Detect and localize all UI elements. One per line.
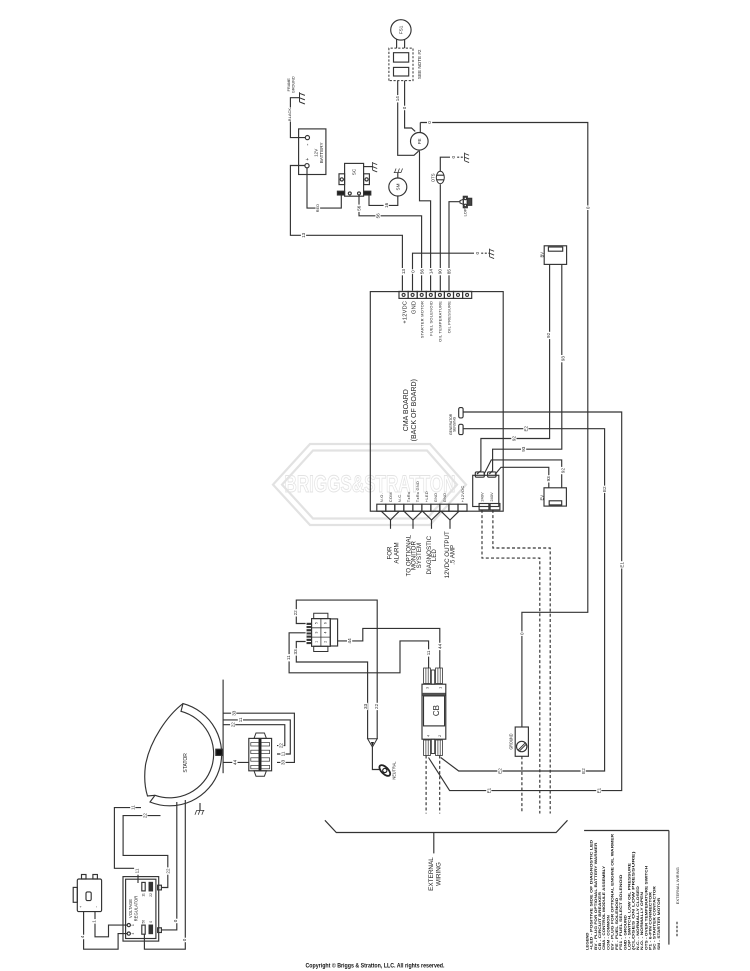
wire black battery to frame ground xyxy=(290,98,305,138)
terminal +12VDC xyxy=(399,291,408,298)
svg-text:22: 22 xyxy=(143,813,148,819)
svg-text:EV: EV xyxy=(539,495,544,501)
svg-text:11: 11 xyxy=(134,868,139,873)
cbp xyxy=(439,668,441,684)
svg-text:+: + xyxy=(305,158,311,161)
svg-text:4: 4 xyxy=(324,631,328,633)
svg-text:GROUND: GROUND xyxy=(292,76,296,93)
svg-text:FUEL SOLENOID: FUEL SOLENOID xyxy=(428,301,433,336)
terminal N.C. xyxy=(395,504,404,511)
label 0b xyxy=(427,120,432,125)
svg-text:22: 22 xyxy=(293,610,298,616)
label 85 xyxy=(447,268,452,275)
svg-text:0: 0 xyxy=(410,270,415,273)
bracket stub xyxy=(433,833,435,854)
svg-text:BLACK: BLACK xyxy=(287,108,292,121)
svg-text:FOR: FOR xyxy=(386,546,393,560)
wire 44 bus to conn xyxy=(223,761,249,763)
label 33b xyxy=(363,703,368,710)
svg-text:56: 56 xyxy=(142,920,146,924)
Briggs & Stratton watermark logo xyxy=(273,444,466,525)
svg-text:0: 0 xyxy=(149,921,153,923)
terminal nc xyxy=(449,504,458,511)
wire OTS gnd dash xyxy=(457,156,464,158)
svg-text:13: 13 xyxy=(301,232,306,238)
terminal OIL PRESSURE xyxy=(444,291,453,298)
wire 93 BV to 240V xyxy=(489,264,562,474)
wire 14 FS1-FE xyxy=(398,81,419,156)
svg-text:+: + xyxy=(79,906,83,908)
ground at SM xyxy=(394,169,403,173)
svg-text:FS1: FS1 xyxy=(399,25,404,34)
fan stub xyxy=(412,520,414,529)
svg-text:4: 4 xyxy=(427,735,431,737)
label 92b xyxy=(511,435,516,442)
fan stub xyxy=(390,520,392,529)
svg-text:0: 0 xyxy=(402,106,407,109)
terminal nc xyxy=(454,291,463,298)
label 4w xyxy=(80,935,85,940)
label 22e xyxy=(142,812,147,819)
label 13b xyxy=(401,268,406,275)
svg-text:+12VDC: +12VDC xyxy=(403,301,409,324)
wire FS1 lead left xyxy=(396,40,398,49)
terminal +12VDC xyxy=(458,504,467,511)
label 1w xyxy=(91,919,96,924)
svg-text:6: 6 xyxy=(324,622,328,624)
svg-text:92: 92 xyxy=(546,332,551,338)
svg-text:14: 14 xyxy=(395,96,400,102)
svg-text:CB: CB xyxy=(432,705,441,716)
svg-text:+LED: +LED xyxy=(424,491,429,502)
label 92c xyxy=(560,467,565,474)
svg-text:4: 4 xyxy=(80,935,85,938)
wire 11 stator to VR xyxy=(114,808,141,883)
terminal GND xyxy=(408,291,417,298)
svg-text:E2: E2 xyxy=(602,486,607,492)
fan diag xyxy=(381,511,390,520)
wire 85 LOP to board xyxy=(449,202,460,291)
wire SM top stub xyxy=(397,173,399,178)
wire 16 SC to SM xyxy=(369,195,398,205)
svg-text:SYSTEM: SYSTEM xyxy=(416,543,423,568)
svg-text:56: 56 xyxy=(376,213,381,219)
battery 12V BATTERY xyxy=(299,129,326,175)
label 56b xyxy=(375,212,380,219)
plug BV (battery warmer) xyxy=(544,246,566,265)
svg-text:0: 0 xyxy=(173,919,178,922)
svg-text:33: 33 xyxy=(231,710,236,716)
P1 grid h1 xyxy=(312,627,331,629)
neutral eyelet xyxy=(378,763,392,777)
svg-text:16: 16 xyxy=(384,202,389,208)
fan diag xyxy=(450,511,459,520)
svg-text:2: 2 xyxy=(438,735,442,737)
fan diag xyxy=(391,511,400,520)
P1 right cap xyxy=(330,619,337,646)
voltage regulator VR xyxy=(123,877,159,942)
label 33d xyxy=(280,759,285,766)
terminal nc xyxy=(463,291,472,298)
wire 22 P1 to neutral xyxy=(296,600,377,739)
terminal GND xyxy=(440,504,449,511)
label E2d xyxy=(497,767,502,774)
label 11f xyxy=(134,867,139,874)
wire 0 stator to VR slot xyxy=(144,800,185,949)
svg-text:E1: E1 xyxy=(619,562,624,568)
svg-text:OIL TEMPERATURE: OIL TEMPERATURE xyxy=(437,301,442,342)
svg-text:STARTER MOTOR: STARTER MOTOR xyxy=(419,301,424,338)
svg-text:SENSING: SENSING xyxy=(453,416,457,432)
label E1b xyxy=(596,787,601,794)
bracket xyxy=(325,820,568,832)
wire 33 P1 to neutral xyxy=(296,642,367,739)
svg-text:CMA BOARD: CMA BOARD xyxy=(403,389,410,431)
terminal OIL TEMPERATURE xyxy=(435,291,444,298)
P1 teeth xyxy=(307,623,312,625)
label 0d xyxy=(519,631,524,636)
fan diag xyxy=(432,511,441,520)
wire 44 P1 to CB xyxy=(338,628,440,668)
plug EV (engine oil warmer) xyxy=(544,488,566,506)
svg-text:44: 44 xyxy=(437,643,442,649)
label 11b xyxy=(426,649,431,656)
label 0i xyxy=(182,938,187,943)
fan diag xyxy=(413,511,422,520)
svg-text:1: 1 xyxy=(314,641,318,643)
label 33a xyxy=(293,648,298,655)
svg-text:90: 90 xyxy=(438,269,443,275)
wire 22 bus to conn xyxy=(223,725,285,746)
label 22d xyxy=(278,742,283,749)
label 56a xyxy=(356,205,361,212)
terminal +LED xyxy=(422,504,431,511)
wire FE top stub xyxy=(419,123,421,133)
svg-text:LED: LED xyxy=(431,549,438,562)
label 93a xyxy=(560,355,565,362)
label 93b xyxy=(521,446,526,453)
svg-text:0: 0 xyxy=(585,206,590,209)
svg-text:0: 0 xyxy=(451,155,456,158)
battery charger plug xyxy=(77,879,101,912)
cbp xyxy=(437,668,439,684)
svg-text:TxRx: TxRx xyxy=(406,492,411,502)
svg-text:14: 14 xyxy=(429,269,434,275)
label 33c xyxy=(231,710,236,717)
label 93c xyxy=(546,475,551,482)
label 22f xyxy=(165,867,170,874)
terminal TxRx xyxy=(404,504,413,511)
svg-text:E2: E2 xyxy=(581,768,586,774)
cbp xyxy=(427,740,429,756)
terminal GND xyxy=(431,504,440,511)
connector P1 6-pin xyxy=(312,619,331,647)
ground at OTS wire xyxy=(465,153,470,163)
svg-text:BATTERY: BATTERY xyxy=(319,142,324,163)
svg-text:13: 13 xyxy=(401,269,406,275)
OTS bar1 xyxy=(437,174,444,176)
svg-text:11: 11 xyxy=(281,751,286,756)
svg-text:2: 2 xyxy=(324,641,328,643)
wire SC to ground xyxy=(364,166,373,168)
terminal N.O. xyxy=(377,504,386,511)
svg-text:11: 11 xyxy=(238,717,243,722)
CB top pins xyxy=(424,668,431,684)
svg-text:E1: E1 xyxy=(596,787,601,793)
P1 grid h2 xyxy=(312,636,331,638)
svg-text:OIL PRESSURE: OIL PRESSURE xyxy=(447,301,452,333)
wire 56 SC to board xyxy=(359,195,422,291)
svg-text:85: 85 xyxy=(447,269,452,275)
svg-text:93: 93 xyxy=(561,356,566,362)
svg-text:44: 44 xyxy=(233,759,238,765)
svg-text:GROUND: GROUND xyxy=(508,734,513,750)
svg-text:FE: FE xyxy=(417,138,422,144)
label E1a xyxy=(619,561,624,568)
stator connector xyxy=(249,738,272,770)
wire 93 240V to EV xyxy=(495,467,549,488)
label 0e xyxy=(451,155,456,160)
label 13a xyxy=(301,232,306,239)
cbp xyxy=(439,740,441,756)
wire to neutral eyelet xyxy=(372,747,379,770)
svg-text:0: 0 xyxy=(520,632,525,635)
stator gnd stub xyxy=(199,803,201,810)
svg-text:33: 33 xyxy=(293,649,298,655)
svg-text:RED: RED xyxy=(315,204,320,213)
terminal STARTER MOTOR xyxy=(417,291,426,298)
label 92a xyxy=(546,332,551,339)
svg-text:.5 AMP: .5 AMP xyxy=(449,545,456,565)
svg-text:33: 33 xyxy=(281,759,286,765)
svg-text:TxRx GND: TxRx GND xyxy=(415,481,420,502)
svg-text:N.O.: N.O. xyxy=(379,493,384,502)
svg-text:BV: BV xyxy=(539,252,544,258)
svg-text:56: 56 xyxy=(420,269,425,275)
splice to neutral xyxy=(368,739,378,747)
legend dash sample xyxy=(676,922,678,937)
stator xyxy=(150,704,222,806)
wire 33 bus to conn xyxy=(223,713,294,762)
label 11c xyxy=(238,716,243,723)
label 44b xyxy=(437,643,442,650)
svg-text:SEE NOTE #2: SEE NOTE #2 xyxy=(417,49,422,79)
svg-text:22: 22 xyxy=(149,893,153,897)
wire 22 stator to VR xyxy=(123,816,168,888)
terminal FUEL SOLENOID xyxy=(426,291,435,298)
svg-text:NEUTRAL: NEUTRAL xyxy=(392,761,397,780)
ground stud GROUND xyxy=(515,727,528,756)
svg-text:22: 22 xyxy=(230,722,235,728)
svg-text:GND: GND xyxy=(442,493,447,503)
svg-text:ALARM: ALARM xyxy=(394,542,401,563)
starter contactor SC xyxy=(345,163,364,196)
svg-text:93: 93 xyxy=(546,476,551,482)
label E2a xyxy=(523,425,528,432)
svg-text:1: 1 xyxy=(439,687,443,689)
wire CB pin4 dash xyxy=(425,756,427,814)
P1 grid v xyxy=(320,619,322,647)
svg-text:COM: COM xyxy=(388,492,393,502)
svg-text:56: 56 xyxy=(356,205,361,211)
wire ground dashed tail xyxy=(521,756,523,813)
svg-text:E2: E2 xyxy=(524,425,529,431)
OTS bar2 xyxy=(437,179,444,181)
svg-text:STATOR: STATOR xyxy=(183,753,189,773)
svg-text:LOP: LOP xyxy=(462,208,467,216)
label 0g xyxy=(410,269,415,274)
label 56c xyxy=(419,268,424,275)
label 11a xyxy=(286,654,291,661)
wire 92 240V to EV xyxy=(484,460,562,488)
svg-text:SM: SM xyxy=(395,183,400,190)
svg-text:GND: GND xyxy=(433,493,438,503)
fan stub xyxy=(431,520,433,529)
svg-text:+12VDC: +12VDC xyxy=(460,485,465,502)
fuel solenoid FE xyxy=(411,133,429,151)
svg-text:240V: 240V xyxy=(480,492,485,502)
svg-text:44: 44 xyxy=(347,638,352,644)
svg-text:Copyright © Briggs & Stratton,: Copyright © Briggs & Stratton, LLC. All … xyxy=(306,963,445,970)
CB bottom pins xyxy=(424,740,431,756)
svg-text:E1: E1 xyxy=(486,787,491,793)
svg-text:4: 4 xyxy=(131,932,135,934)
svg-text:(BACK OF BOARD): (BACK OF BOARD) xyxy=(411,379,418,441)
ground at board 0 xyxy=(490,249,495,259)
wire 90 OTS to board xyxy=(439,184,441,291)
wire FS1 lead right xyxy=(404,40,406,49)
svg-text:22: 22 xyxy=(374,703,379,709)
circuit breaker CB xyxy=(422,684,446,739)
fan diag xyxy=(441,511,450,520)
wire 11 bus to conn xyxy=(223,720,290,754)
svg-text:33: 33 xyxy=(363,703,368,709)
wire 0 FS1-FE xyxy=(405,81,416,132)
cbp xyxy=(437,740,439,756)
dashed connector box SEE NOTE #2 xyxy=(389,48,413,81)
wire 240V dashed left xyxy=(482,510,540,814)
svg-text:E2: E2 xyxy=(498,768,503,774)
svg-text:92: 92 xyxy=(561,468,566,474)
label 90 xyxy=(437,268,442,275)
wire 0 board to ground xyxy=(413,253,475,291)
fan diag xyxy=(423,511,432,520)
label 22b xyxy=(374,703,379,710)
label 22c xyxy=(230,721,235,728)
svg-text:11: 11 xyxy=(426,650,431,655)
label 0f xyxy=(475,251,480,256)
svg-text:WIRING: WIRING xyxy=(436,862,443,886)
svg-text:11: 11 xyxy=(142,893,146,897)
P1 top latch xyxy=(314,613,328,618)
svg-text:5: 5 xyxy=(314,622,318,624)
cbp xyxy=(427,668,429,684)
svg-text:EXTERNAL: EXTERNAL xyxy=(428,857,435,891)
svg-text:GND: GND xyxy=(412,301,418,314)
svg-text:1: 1 xyxy=(131,924,135,926)
svg-text:11: 11 xyxy=(130,805,135,810)
svg-text:REGULATOR: REGULATOR xyxy=(133,896,138,922)
svg-text:3: 3 xyxy=(425,687,429,689)
stator junction xyxy=(216,749,223,755)
wire 0 FE to right side xyxy=(420,123,588,728)
low oil pressure switch LOP xyxy=(463,196,467,207)
fan stub xyxy=(449,520,451,529)
wire FE bottom to terminal 14 xyxy=(419,150,431,291)
label E2b xyxy=(602,486,607,493)
wire 92 BV to 240V xyxy=(477,264,550,474)
cbp xyxy=(425,668,427,684)
over temperature switch OTS xyxy=(436,171,444,183)
svg-text:22: 22 xyxy=(279,743,284,749)
wire OTS top to ground xyxy=(440,157,450,171)
fuel select solenoid FS1 xyxy=(391,20,411,40)
terminal COM xyxy=(386,504,395,511)
label 0h xyxy=(173,919,178,924)
label 0c xyxy=(585,206,590,211)
label 22a xyxy=(293,609,298,616)
svg-text:-: - xyxy=(306,144,312,146)
wire 240V dashed right xyxy=(493,510,550,814)
CMA board outline xyxy=(370,292,503,512)
svg-text:22: 22 xyxy=(165,868,170,874)
svg-text:SM - STARTER MOTOR: SM - STARTER MOTOR xyxy=(657,897,661,950)
svg-text:240V: 240V xyxy=(489,492,494,502)
wire E1 gen sensing to CB xyxy=(429,412,622,791)
legend right border xyxy=(668,831,670,945)
cbp xyxy=(425,740,427,756)
svg-text:3: 3 xyxy=(314,631,318,633)
label E2c xyxy=(581,767,586,774)
legend top border xyxy=(584,830,669,832)
wire 0 stator to VR tab xyxy=(162,802,177,930)
wire RED battery to SC xyxy=(307,168,341,208)
wire 11 P1 to CB xyxy=(289,633,429,673)
svg-text:SC: SC xyxy=(352,168,357,175)
label 14 xyxy=(395,95,400,102)
wire CB pin2 dash xyxy=(439,756,441,814)
svg-text:OTS: OTS xyxy=(431,173,436,182)
svg-text:0: 0 xyxy=(427,121,432,124)
svg-text:92: 92 xyxy=(512,436,517,442)
terminal TxRx GND xyxy=(413,504,422,511)
svg-text:1: 1 xyxy=(92,920,97,923)
label 11e xyxy=(130,804,135,811)
wire 0 gnd dash xyxy=(481,252,489,254)
starter motor SM xyxy=(389,178,407,196)
svg-text:93: 93 xyxy=(521,446,526,452)
label 0a xyxy=(402,106,407,111)
wire 4 plug to VR xyxy=(84,912,128,950)
svg-text:0: 0 xyxy=(182,938,187,941)
label 14b xyxy=(428,268,433,275)
label 16 xyxy=(384,202,389,209)
P1 bottom latch xyxy=(314,646,328,651)
label 44a xyxy=(347,637,352,644)
svg-text:EXTERNAL WIRING: EXTERNAL WIRING xyxy=(675,867,680,904)
stator bus line xyxy=(222,680,224,774)
fan diag xyxy=(404,511,413,520)
wire 1 plug to VR xyxy=(95,912,127,937)
label 11d xyxy=(280,750,285,757)
label BLACK xyxy=(288,108,293,122)
svg-text:11: 11 xyxy=(286,655,291,660)
label E1c xyxy=(486,787,491,794)
connector 240V xyxy=(473,475,499,506)
svg-text:N.C.: N.C. xyxy=(397,493,402,502)
wire 13 battery to board xyxy=(290,166,402,291)
wire E2 gen sensing to CB xyxy=(441,429,605,771)
